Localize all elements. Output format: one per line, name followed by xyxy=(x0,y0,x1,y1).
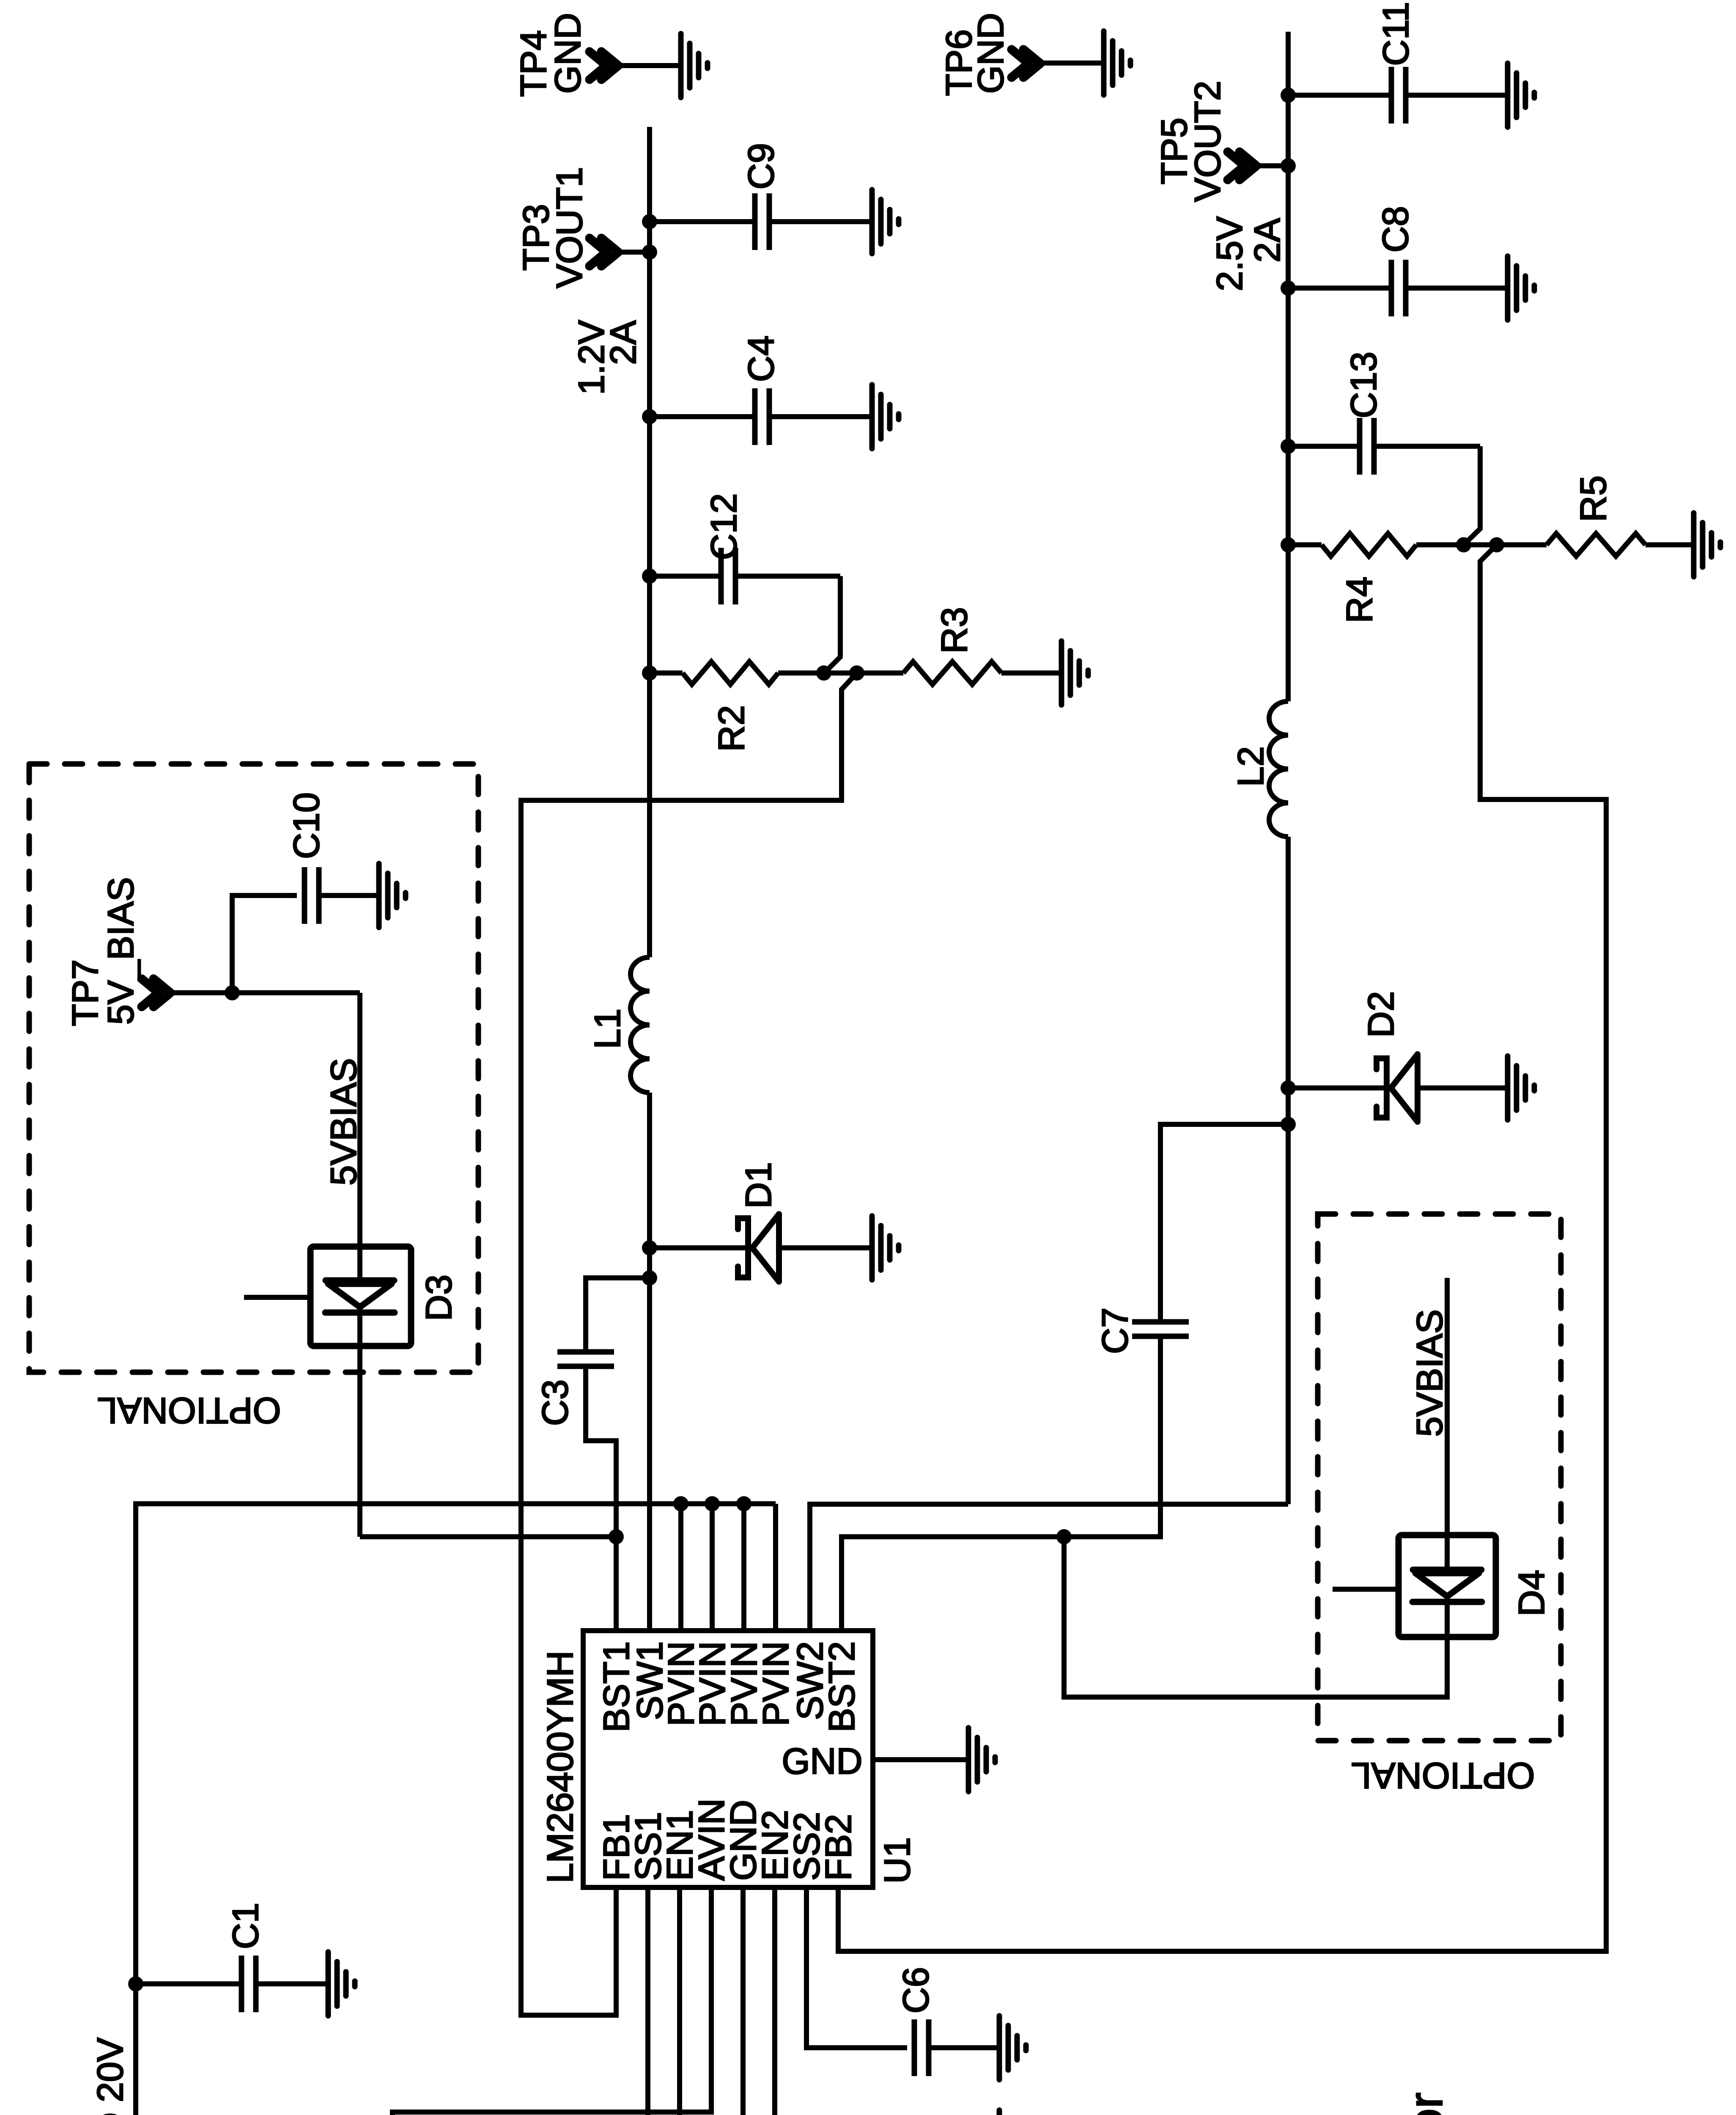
wire EN1 vertical xyxy=(677,1887,682,2115)
resistor R3 xyxy=(857,607,1061,684)
resistor R2 xyxy=(650,662,824,752)
svg-text:R3: R3 xyxy=(934,607,975,654)
pin label AVIN (bottom) xyxy=(691,1799,732,1881)
wire BST2 run xyxy=(842,1373,1160,1631)
wire D1 anode side xyxy=(650,1245,748,1250)
svg-text:VOUT2: VOUT2 xyxy=(1188,81,1228,202)
wire 5VBIAS to D4 xyxy=(1445,1278,1450,1637)
svg-text:C6: C6 xyxy=(896,1967,936,2013)
svg-text:TP7: TP7 xyxy=(65,959,106,1026)
svg-text:GND: GND xyxy=(782,1741,862,1782)
svg-text:5VBIAS: 5VBIAS xyxy=(324,1058,364,1185)
capacitor C8 xyxy=(1375,206,1416,316)
wire GND pin route xyxy=(743,1887,999,2115)
junction VOUT2/C11 xyxy=(1281,88,1296,103)
node FB1 junction b xyxy=(849,665,864,681)
ground TP4 xyxy=(681,34,708,98)
diode D4 box xyxy=(1399,1535,1496,1637)
pin label PVIN (top) xyxy=(692,1641,733,1726)
capacitor C10 xyxy=(286,792,327,924)
pin label PVIN (top) xyxy=(724,1641,765,1726)
wire C1 branch xyxy=(136,1981,328,1986)
label LM26400YMH xyxy=(540,1651,581,1883)
svg-text:GND: GND xyxy=(971,13,1011,93)
wire C8 branch xyxy=(1288,286,1508,291)
diode D3 box xyxy=(310,1247,411,1346)
wire GND pin to ground xyxy=(873,1757,968,1762)
testpoint TP7 5V_BIAS label xyxy=(65,877,141,1026)
ground C6 xyxy=(999,2016,1026,2080)
svg-text:D3: D3 xyxy=(419,1274,459,1321)
svg-text:OPTIONAL: OPTIONAL xyxy=(1351,1755,1535,1796)
svg-text:L1: L1 xyxy=(587,1008,628,1049)
testpoint TP6 arrow xyxy=(1012,49,1040,77)
label 2.5V 2A xyxy=(1209,217,1288,291)
svg-text:GND: GND xyxy=(548,13,588,93)
wire C12 branch xyxy=(650,576,840,673)
label 5VBIAS net (left) xyxy=(324,1058,364,1185)
wire C10 branch xyxy=(232,895,379,993)
wire D3 anode stub xyxy=(244,1295,310,1300)
svg-text:LM26400YMH: LM26400YMH xyxy=(540,1651,581,1883)
pin label SS1 (bottom) xyxy=(628,1812,669,1881)
capacitor C4 xyxy=(741,335,782,445)
svg-text:The optional parts are for: The optional parts are for xyxy=(1399,2093,1452,2115)
svg-text:VOUT1: VOUT1 xyxy=(549,167,590,288)
junction VOUT1/C9 xyxy=(642,214,657,229)
wire D2 anode side xyxy=(1288,1085,1387,1090)
ground GND pin xyxy=(999,2110,1026,2115)
IC U1 LM26400YMH box xyxy=(583,1631,873,1887)
wire SS1 to C5 xyxy=(648,1887,999,2115)
pin label SW2 (top) xyxy=(790,1641,831,1720)
wire TP3 xyxy=(618,250,650,255)
svg-text:5V_BIAS: 5V_BIAS xyxy=(101,877,141,1025)
capacitor C1 xyxy=(225,1903,266,2012)
wire C3 bottom xyxy=(586,1366,616,1537)
ground C9 xyxy=(872,190,899,254)
capacitor C11 xyxy=(1376,2,1416,124)
svg-text:R4: R4 xyxy=(1339,577,1380,623)
inductor L2 xyxy=(1231,701,1288,837)
inductor L1 xyxy=(587,957,650,1093)
resistor R5 xyxy=(1497,475,1694,556)
junction SW1/D1 xyxy=(642,1240,657,1255)
testpoint TP5 VOUT2 label xyxy=(1154,81,1228,202)
label U1 xyxy=(877,1837,918,1884)
junction VOUT2/R4 xyxy=(1281,537,1296,552)
wire FB1 route xyxy=(521,673,857,2015)
label 5VBIAS net (right) xyxy=(1410,1309,1450,1437)
testpoint TP7 arrow xyxy=(142,979,170,1007)
wire C11 branch xyxy=(1288,93,1508,98)
node FB1 junction a xyxy=(816,665,831,681)
label 1.2V 2A xyxy=(571,320,644,395)
ground U1 GND xyxy=(968,1728,995,1792)
junction SW2/C7 xyxy=(1281,1117,1296,1132)
wire PVIN stub2 xyxy=(710,1504,715,1631)
label 5V TO 20V xyxy=(90,2038,131,2115)
wire C3 top xyxy=(586,1278,650,1352)
pin label EN2 (bottom) xyxy=(755,1810,795,1881)
svg-text:2A: 2A xyxy=(1247,218,1288,263)
svg-text:C10: C10 xyxy=(286,792,327,859)
wire PVIN rail xyxy=(136,1504,776,2115)
svg-text:R2: R2 xyxy=(711,705,752,752)
wire 5VBIAS to D3 xyxy=(357,993,362,1537)
pin label SS2 (bottom) xyxy=(787,1812,827,1881)
ground R3 xyxy=(1061,641,1088,705)
node FB2 junction b xyxy=(1489,537,1504,552)
wire TP7 to junction xyxy=(170,990,360,995)
wire C7 top xyxy=(1160,1124,1288,1322)
svg-text:FB2: FB2 xyxy=(818,1814,859,1881)
wire TP5 xyxy=(1256,163,1288,168)
junction VOUT2/TP5 xyxy=(1281,158,1296,173)
wire D4 anode stub xyxy=(1333,1587,1399,1592)
capacitor C3 xyxy=(535,1352,614,1426)
diode D3 xyxy=(325,1274,459,1321)
ground TP6 xyxy=(1104,31,1130,95)
junction PVIN stub3 xyxy=(736,1496,751,1511)
junction PVIN stub1 xyxy=(673,1496,688,1511)
wire FB2 junction link xyxy=(1464,542,1497,547)
svg-text:C4: C4 xyxy=(741,335,782,382)
optional box 2 (dashed) xyxy=(1318,1214,1561,1741)
pin label GND (bottom) xyxy=(723,1800,764,1881)
junction PVIN stub2 xyxy=(705,1496,720,1511)
testpoint TP4 arrow xyxy=(590,52,618,80)
svg-text:2.5V: 2.5V xyxy=(1209,217,1250,291)
ground C8 xyxy=(1508,256,1534,320)
ground C4 xyxy=(872,385,899,449)
junction VOUT2/C13 xyxy=(1281,439,1296,454)
junction VOUT2/C8 xyxy=(1281,280,1296,296)
optional box 1 (dashed) xyxy=(29,764,478,1372)
svg-text:U1: U1 xyxy=(877,1837,918,1884)
pin label FB2 (bottom) xyxy=(818,1814,859,1881)
wire C9 branch xyxy=(650,219,872,224)
junction VIN/C1 xyxy=(128,1976,143,1991)
wire PVIN stub4 xyxy=(773,1504,778,1631)
node VOUT2 rail xyxy=(1286,32,1291,1504)
pin label BST1 (top) xyxy=(596,1641,637,1732)
diode D1 (schottky) xyxy=(738,1162,779,1282)
svg-text:5VBIAS: 5VBIAS xyxy=(1410,1309,1450,1437)
junction VOUT1/C4 xyxy=(642,409,657,424)
svg-text:C1: C1 xyxy=(225,1903,266,1949)
wire BST1 pin stub xyxy=(614,1537,619,1631)
svg-text:C12: C12 xyxy=(704,493,744,560)
label OPTIONAL (right box) xyxy=(1351,1755,1535,1796)
svg-text:C9: C9 xyxy=(741,143,782,190)
capacitor C13 xyxy=(1344,352,1384,475)
pin label SW1 (top) xyxy=(630,1641,670,1720)
pin label EN1 (bottom) xyxy=(660,1810,700,1881)
capacitor C7 xyxy=(1095,1307,1189,1354)
node FB2 junction a xyxy=(1456,537,1471,552)
svg-text:C13: C13 xyxy=(1344,352,1384,418)
pin label FB1 (bottom) xyxy=(596,1814,637,1881)
junction VOUT1/TP3 xyxy=(642,244,657,260)
wire D2 to ground xyxy=(1418,1085,1508,1090)
wire EN2 vertical xyxy=(772,1887,777,2115)
wire PVIN stub3 xyxy=(741,1504,746,1631)
junction BST2/D4 branch xyxy=(1056,1529,1072,1544)
ground D1 xyxy=(872,1216,899,1280)
ground C10 xyxy=(379,864,406,928)
diode D2 (schottky) xyxy=(1361,991,1418,1122)
svg-text:C3: C3 xyxy=(535,1379,576,1426)
svg-text:L2: L2 xyxy=(1231,746,1271,787)
wire AVIN route xyxy=(377,1887,711,2115)
pin label PVIN (top) xyxy=(756,1641,796,1726)
testpoint TP3 VOUT1 label xyxy=(516,167,590,288)
ground C11 xyxy=(1508,63,1534,127)
ground R5 xyxy=(1694,513,1720,577)
testpoint TP4 GND label xyxy=(513,13,588,96)
junction SW2/D2 xyxy=(1281,1080,1296,1096)
capacitor C6 xyxy=(896,1967,936,2076)
pin label GND (right) xyxy=(782,1741,862,1782)
svg-text:C11: C11 xyxy=(1376,2,1416,66)
ground C1 xyxy=(328,1952,355,2016)
note text xyxy=(1399,2093,1511,2115)
testpoint TP5 arrow xyxy=(1228,152,1256,180)
junction VOUT1/R2 xyxy=(642,665,657,681)
wire C13 branch xyxy=(1288,446,1480,545)
pin label BST2 (top) xyxy=(822,1641,862,1732)
junction TP7/C10 xyxy=(225,985,240,1000)
node VOUT1 rail (SW1 net below L1) xyxy=(647,127,652,1631)
wire SS2 to C6 xyxy=(806,1887,999,2048)
resistor R4 xyxy=(1288,533,1464,623)
wire PVIN stub1 xyxy=(678,1504,683,1631)
svg-text:BST2: BST2 xyxy=(822,1641,862,1732)
ground D2 xyxy=(1508,1056,1534,1120)
wire FB2 route xyxy=(838,545,1606,1951)
diode D4 xyxy=(1412,1570,1552,1616)
wire C7 bottom xyxy=(1158,1336,1163,1537)
svg-text:OPTIONAL: OPTIONAL xyxy=(97,1390,281,1431)
pin label PVIN (top) xyxy=(661,1641,702,1726)
capacitor C9 xyxy=(741,143,782,250)
svg-text:5V TO 20V: 5V TO 20V xyxy=(90,2038,131,2115)
wire TP4 to ground xyxy=(618,63,681,68)
wire C4 branch xyxy=(650,414,872,419)
wire FB1 junction link xyxy=(824,670,857,676)
svg-text:R5: R5 xyxy=(1573,475,1614,522)
svg-text:C7: C7 xyxy=(1095,1307,1135,1354)
svg-text:D2: D2 xyxy=(1361,991,1401,1038)
svg-text:D1: D1 xyxy=(738,1162,779,1209)
testpoint TP6 GND label xyxy=(939,13,1011,96)
wire TP6 to ground xyxy=(1040,60,1104,66)
testpoint TP3 arrow xyxy=(590,238,618,266)
wire D4 branch xyxy=(1064,1537,1447,1697)
wire BST1 horizontal xyxy=(360,1534,616,1539)
svg-text:2A: 2A xyxy=(603,320,644,365)
wire D1 to ground xyxy=(779,1245,872,1250)
junction SW1/C3 xyxy=(642,1270,657,1285)
capacitor C12 xyxy=(704,493,744,604)
junction VOUT1/C12 xyxy=(642,569,657,584)
junction BST1 xyxy=(609,1529,624,1544)
svg-text:D4: D4 xyxy=(1511,1570,1552,1616)
wire SW2 to rail xyxy=(810,1504,1288,1631)
label OPTIONAL (left box) xyxy=(97,1390,281,1431)
svg-text:C8: C8 xyxy=(1375,206,1416,253)
